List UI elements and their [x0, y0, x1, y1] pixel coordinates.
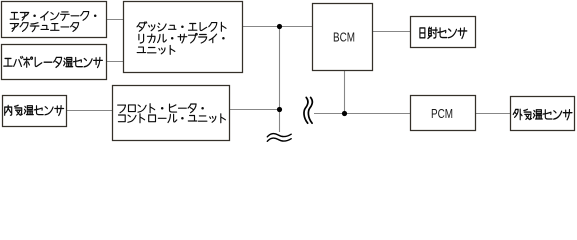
node junction dot lower-left (front heater line) [277, 107, 282, 112]
wire break to PCM [314, 113, 411, 115]
block: outside air temp sensor (外気温センサ) [511, 97, 575, 131]
block: inside air temp sensor (内気温センサ) [3, 96, 67, 127]
wire front-heater-control-unit to node [230, 109, 280, 111]
block: dash electrical supply unit (ダッシュ・エレクトリカル・サプライ・ユニット) [124, 2, 243, 73]
wire dash-electrical-supply-unit to BCM [243, 26, 313, 28]
node junction dot lower-mid (BCM / PCM line) [342, 111, 347, 116]
block: air intake actuator (エア・インテーク・アクチュエータ) [2, 2, 107, 38]
block: PCM powertrain control module [411, 96, 476, 131]
wire air-intake-actuator to dash-electrical-supply-unit [107, 19, 124, 21]
wire inside-air-temp-sensor to front-heater-control-unit [67, 110, 113, 112]
svg-text:BCM: BCM [333, 31, 355, 45]
wire break symbol (vertical double wave) on PCM line [304, 97, 312, 123]
svg-text:PCM: PCM [431, 107, 453, 121]
wire PCM to outside-air-temp-sensor [476, 113, 511, 115]
block: BCM body control module [313, 4, 373, 71]
node junction dot upper (dash unit / BCM line) [277, 24, 282, 29]
block: front heater control unit (フロント・ヒータ・コントロール・ユニット) [113, 86, 230, 141]
wire BCM to sunlight-sensor [373, 31, 411, 33]
wire BCM down to PCM line [344, 71, 346, 114]
wire vertical bus at x=279.5 [279, 27, 281, 133]
wire break symbol (horizontal double wave) at bottom of vertical bus [267, 134, 291, 142]
block: sunlight sensor (日射センサ) [411, 17, 476, 48]
wire evaporator-temp-sensor to dash-electrical-supply-unit [107, 61, 124, 63]
block: evaporator temp sensor (エバポレータ温センサ) [2, 45, 107, 80]
